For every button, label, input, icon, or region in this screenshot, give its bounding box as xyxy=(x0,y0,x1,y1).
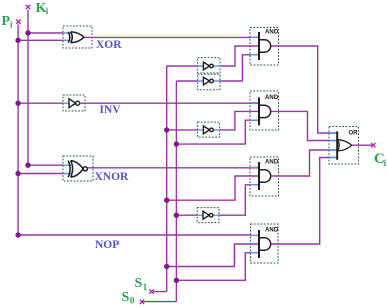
inverter U2 stub xyxy=(198,80,220,82)
wire U3 output to AND2 input 2 xyxy=(220,111,259,129)
wire A1 output to OR input 1 xyxy=(271,46,337,133)
node S0 terminal marker xyxy=(140,300,144,304)
inverter U1 dashed box xyxy=(198,58,220,73)
wire A4 output to OR input 4 xyxy=(271,158,337,245)
gate XOR dashed box xyxy=(63,26,92,48)
wire S1 top corner to inverter U1 input xyxy=(167,65,198,67)
inverter U3 dashed box xyxy=(198,122,220,137)
junction Ki-XOR xyxy=(25,30,30,35)
junction S1-AND4 xyxy=(164,264,169,269)
svg-text:i: i xyxy=(10,19,13,29)
node S1 label xyxy=(135,276,148,292)
gate XOR symbol xyxy=(68,32,84,43)
wire S0 branch to AND4 input 3 xyxy=(176,253,259,280)
and-gate A1 input stubs xyxy=(250,37,259,55)
svg-text:i: i xyxy=(46,6,49,16)
junction Pi-INV xyxy=(15,101,20,106)
wire S0 branch to AND2 input 3 xyxy=(176,120,259,144)
and-gate A1 symbol xyxy=(259,32,271,60)
gate INV symbol xyxy=(69,99,80,108)
wire S1 vertical stem xyxy=(166,66,168,292)
wire U2 output to AND1 input 3 xyxy=(220,55,259,81)
node Pi label xyxy=(2,14,14,29)
junction Ki-XNOR xyxy=(25,163,30,168)
wire S1 branch to AND4 input 2 xyxy=(167,244,259,267)
and-gate A4 dashed box xyxy=(251,224,279,263)
wire Ki to XNOR input 1 xyxy=(28,164,63,166)
svg-text:INV: INV xyxy=(100,104,122,116)
svg-text:S: S xyxy=(122,290,130,305)
junction S0-AND2 xyxy=(174,141,179,146)
svg-text:XOR: XOR xyxy=(96,39,122,51)
svg-text:OR: OR xyxy=(349,130,359,136)
node Ci label xyxy=(374,151,387,168)
svg-text:XNOR: XNOR xyxy=(95,171,130,183)
inverter U4 symbol xyxy=(203,211,213,219)
wire U1 output to AND1 input 2 xyxy=(220,46,259,66)
svg-text:i: i xyxy=(384,158,387,168)
and-gate A2 dashed box xyxy=(250,91,279,130)
wire Pi to XOR input 2 xyxy=(18,39,63,41)
wire Pi to INV input xyxy=(18,102,63,104)
wire Ki vertical stem xyxy=(27,10,29,166)
wire S1 marker to stem xyxy=(153,291,167,293)
wire OR output to Ci xyxy=(352,144,372,146)
node Ci terminal marker xyxy=(371,143,375,147)
junction Pi-NOP corner xyxy=(15,232,20,237)
or-gate O1 symbol xyxy=(337,131,352,159)
junction S1-AND3 xyxy=(164,198,169,203)
wire S1 branch to inverter U3 input xyxy=(167,129,198,131)
and-gate A2 input stubs xyxy=(250,103,259,121)
wire S0 marker to stem xyxy=(144,301,177,303)
wire A3 output to OR input 3 xyxy=(271,150,337,176)
svg-text:0: 0 xyxy=(130,296,135,306)
and-gate A3 input stubs xyxy=(250,167,259,185)
wire A2 output to OR input 2 xyxy=(271,111,337,140)
or-gate O1 input stubs xyxy=(329,133,337,158)
wire Pi vertical stem xyxy=(17,24,19,235)
node S1 terminal marker xyxy=(149,289,153,293)
inverter U2 dashed box xyxy=(198,74,220,89)
wire XNOR output to AND3 input 1 xyxy=(87,167,259,169)
and-gate A3 dashed box xyxy=(250,157,279,196)
and-gate A2 symbol xyxy=(259,97,271,125)
wire XOR output to AND1 input 1 xyxy=(84,36,259,38)
junction S0-U4 xyxy=(174,213,179,218)
inverter U3 stub xyxy=(198,129,220,131)
gate XNOR symbol xyxy=(68,161,87,178)
svg-text:AND: AND xyxy=(265,228,279,234)
gate XNOR input stubs xyxy=(63,165,71,173)
wire S0 vertical stem xyxy=(175,81,177,302)
wire Ki to XOR input 1 xyxy=(28,32,63,34)
svg-text:AND: AND xyxy=(265,160,279,166)
junction S0-AND4 xyxy=(174,278,179,283)
svg-text:AND: AND xyxy=(265,30,279,36)
wire S1 branch to AND3 input 2 xyxy=(167,176,259,200)
svg-text:AND: AND xyxy=(265,95,279,101)
node Ki label xyxy=(36,1,49,16)
wire NOP run Pi to AND4 input 1 xyxy=(18,234,250,236)
svg-text:S: S xyxy=(135,276,143,291)
inverter U1 symbol xyxy=(203,62,213,70)
wire U4 output to AND3 input 3 xyxy=(219,185,259,215)
inverter U3 symbol xyxy=(203,126,213,134)
wire Pi to XNOR input 2 xyxy=(18,173,63,175)
node Ki input terminal marker xyxy=(26,5,30,9)
gate XOR input stubs xyxy=(63,33,71,40)
gate INV dashed box xyxy=(63,95,85,111)
gate XNOR dashed box xyxy=(63,156,93,181)
node Pi input terminal marker xyxy=(16,20,20,24)
junction Pi-XNOR xyxy=(15,171,20,176)
and-gate A1 dashed box xyxy=(250,28,279,66)
or-gate O1 dashed box xyxy=(329,127,359,165)
gate INV input stub xyxy=(63,102,69,104)
junction Pi-XOR xyxy=(15,38,20,43)
inverter U4 dashed box xyxy=(197,208,219,223)
inverter U2 symbol xyxy=(203,77,213,85)
wire S0 branch to inverter U4 input xyxy=(176,214,197,216)
svg-text:1: 1 xyxy=(143,282,148,292)
junction S1-U3 xyxy=(164,127,169,132)
inverter U1 stub xyxy=(198,65,220,67)
inverter U4 stub xyxy=(197,214,219,216)
and-gate A3 symbol xyxy=(259,162,271,190)
and-gate A4 input stubs xyxy=(251,235,260,253)
node S0 label xyxy=(122,290,135,306)
wire INV output to AND2 input 1 xyxy=(80,102,259,104)
wire S0 top corner to inverter U2 input xyxy=(176,80,197,82)
svg-text:NOP: NOP xyxy=(95,239,119,251)
and-gate A4 symbol xyxy=(259,230,271,258)
